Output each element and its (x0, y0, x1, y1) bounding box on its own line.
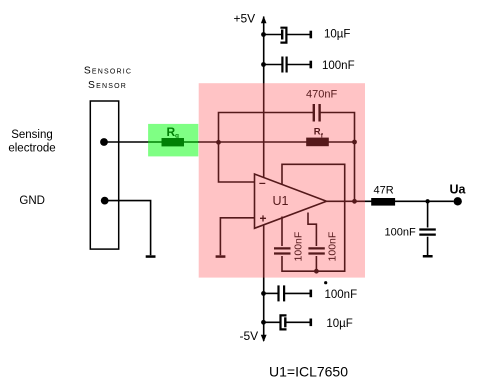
label Rg (167, 125, 180, 139)
label Rf (314, 127, 324, 140)
node output cap junction (425, 199, 429, 203)
wire junction down to inverting input (219, 142, 255, 182)
svg-text:electrode: electrode (8, 143, 55, 155)
capacitor 470nF (314, 104, 320, 122)
wire sensing electrode to feedback node (y=142) (104, 141, 355, 143)
+5V arrow (261, 16, 267, 23)
capacitor C2 100nF (264, 57, 311, 73)
capacitor C6 100nF (output) (419, 201, 436, 255)
node +5V cap2 junction (261, 62, 266, 67)
svg-text:10µF: 10µF (326, 318, 352, 330)
node feedback junction (216, 140, 221, 145)
node -5V cap4 junction (261, 320, 266, 325)
node Rf right junction (352, 140, 357, 145)
-5V arrow (261, 335, 267, 342)
wire non-inverting input to ground (220, 218, 254, 256)
svg-text:100nF: 100nF (322, 60, 355, 72)
svg-text:-5V: -5V (240, 329, 259, 343)
guard ring rectangle (282, 164, 345, 271)
capacitor C8 10uF (bottom, polarized) (264, 315, 311, 329)
green highlight overlay (148, 124, 198, 156)
svg-text:Ua: Ua (450, 183, 467, 197)
node -5V cap3 junction (261, 291, 266, 296)
terminal Ua (454, 197, 462, 205)
capacitor C7 100nF (bottom) (264, 285, 311, 301)
ground (output cap) (423, 255, 433, 258)
svg-text:Sensor: Sensor (88, 80, 127, 91)
capacitor C5 100nF (right under op-amp) with jog (308, 213, 325, 272)
stray dot (324, 281, 327, 284)
svg-text:+5V: +5V (234, 12, 256, 26)
svg-text:Sensing: Sensing (11, 129, 53, 141)
svg-text:47R: 47R (374, 185, 394, 197)
sensor box (SENSORIC SENSOR) (90, 101, 118, 249)
node op-amp output junction (352, 199, 357, 204)
resistor 47R (371, 198, 395, 206)
capacitor C4 100nF (left under op-amp) (274, 217, 291, 254)
svg-text:10µF: 10µF (324, 29, 350, 41)
wire +5V rail down to op-amp top (263, 17, 265, 178)
wire 470nF to right corner and down to Rf node (320, 113, 355, 202)
wire -5V rail from op-amp bottom (263, 225, 265, 341)
capacitor C1 10uF (polarized) (280, 28, 310, 43)
wire junction up to 470nF branch (219, 113, 314, 143)
label Sensing electrode (8, 129, 55, 155)
ground (sensor GND) (146, 255, 156, 257)
node GND electrode (101, 197, 109, 205)
resistor Rf (306, 138, 329, 147)
resistor Rg (green highlighted) (162, 138, 185, 146)
label SENSORIC SENSOR (84, 66, 132, 91)
svg-text:U1=ICL7650: U1=ICL7650 (269, 364, 348, 380)
svg-text:Sensoric: Sensoric (84, 66, 132, 77)
svg-text:100nF: 100nF (325, 289, 358, 301)
pink highlight overlay (199, 83, 365, 277)
node +5V cap1 junction (261, 32, 266, 37)
svg-text:GND: GND (19, 195, 45, 207)
op-amp U1 (255, 174, 327, 228)
wire to capacitor C1 (264, 34, 282, 36)
node guard bottom junction (314, 269, 319, 274)
svg-text:100nF: 100nF (385, 226, 416, 238)
wire GND electrode (105, 201, 151, 256)
ground (non-inverting input) (216, 255, 226, 257)
node sensing electrode (100, 138, 108, 146)
wire op-amp output to Ua (327, 200, 454, 202)
